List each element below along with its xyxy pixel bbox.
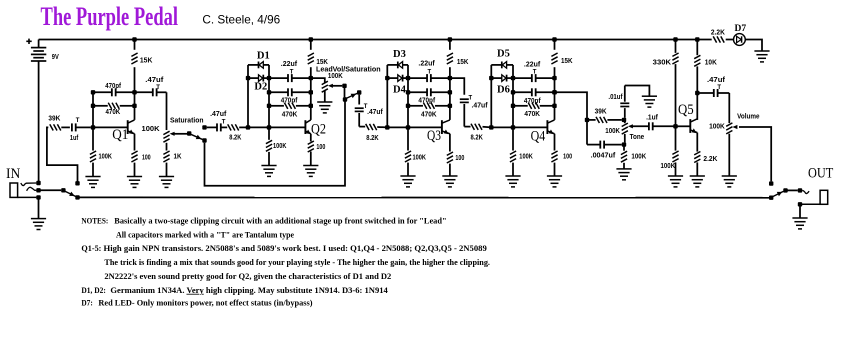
label T (to Q2) xyxy=(222,119,226,125)
wire: to Volume pot xyxy=(728,93,730,123)
wire: Q1 base node vertical xyxy=(92,92,94,150)
svg-text:.0047uf: .0047uf xyxy=(591,153,616,160)
wire: jack sleeve to ground xyxy=(38,197,40,218)
svg-text:T: T xyxy=(76,118,80,124)
resistor 2.2K (Q5 emitter) xyxy=(694,133,700,176)
junction Q5 base node xyxy=(673,124,677,128)
svg-text:2.2K: 2.2K xyxy=(711,29,725,36)
label 100K (Q4 bias) xyxy=(519,154,533,161)
junction on rail at Q4 15K xyxy=(552,37,556,41)
transistor Q5 xyxy=(690,119,697,133)
svg-text:470pf: 470pf xyxy=(281,98,298,105)
potentiometer Tone 100K xyxy=(622,120,628,142)
svg-text:1K: 1K xyxy=(174,153,182,160)
label .1uf xyxy=(646,114,658,121)
label D6 xyxy=(497,84,510,95)
resistor 8.2K (Q2 input) xyxy=(228,124,248,130)
svg-text:2N2222's even sound pretty goo: 2N2222's even sound pretty good for Q2, … xyxy=(104,272,391,281)
wire: D5 to node B xyxy=(507,64,513,66)
label 100K (Q5 bias) xyxy=(661,163,676,170)
switch SW1a (lead select) xyxy=(191,134,203,139)
wire: lead-switch rail xyxy=(205,97,346,186)
svg-text:100K: 100K xyxy=(273,143,286,150)
junction 470K row right xyxy=(448,104,452,108)
wire: feedback node vertical xyxy=(512,65,514,128)
junction tone node xyxy=(585,118,589,122)
label 470pf (Q3) xyxy=(418,98,435,105)
svg-text:8.2K: 8.2K xyxy=(471,134,483,141)
junction Q4 470pf row tap xyxy=(552,90,556,94)
resistor 15K (Q1 collector load) xyxy=(131,40,137,93)
svg-text:Saturation: Saturation xyxy=(170,118,204,125)
svg-text:Q1: Q1 xyxy=(112,127,128,143)
svg-text:.22uf: .22uf xyxy=(418,61,435,68)
capacitor 470pf xyxy=(408,88,450,96)
label 100 (Q1) xyxy=(142,154,151,161)
svg-text:470K: 470K xyxy=(282,111,298,118)
svg-text:T: T xyxy=(290,70,294,76)
wire: to Saturation pot xyxy=(166,92,168,130)
label Q3 xyxy=(427,128,441,144)
svg-text:D4: D4 xyxy=(393,85,407,96)
svg-text:D7: D7 xyxy=(735,24,747,34)
transistor Q3 xyxy=(442,120,450,134)
battery plus sign xyxy=(26,39,31,44)
svg-text:.47uf: .47uf xyxy=(145,77,164,84)
label T (to Q3) xyxy=(364,104,368,110)
svg-text:470pf: 470pf xyxy=(418,98,435,105)
svg-text:T: T xyxy=(533,70,537,76)
label D5 xyxy=(497,49,510,60)
label 330K xyxy=(653,59,671,66)
junction lead rail top / switch xyxy=(343,97,347,101)
potentiometer LeadVol/Saturation 100K xyxy=(322,81,328,102)
resistor 8.2K (Q3 input) xyxy=(366,124,388,130)
junction output switch pivot xyxy=(783,188,787,192)
svg-text:High gain NPN transistors. 2N: High gain NPN transistors. 2N5088's and … xyxy=(104,244,487,253)
label 8.2K (Q3 in) xyxy=(366,135,378,142)
svg-text:D5: D5 xyxy=(497,49,510,60)
svg-text:2.2K: 2.2K xyxy=(703,156,717,163)
svg-text:1uf: 1uf xyxy=(70,135,79,142)
junction LeadVol wiper xyxy=(342,84,346,88)
LED D7 xyxy=(734,34,746,46)
svg-text:100K: 100K xyxy=(142,126,160,133)
svg-text:15K: 15K xyxy=(457,59,469,66)
wire: Q4 collector node down xyxy=(554,78,556,120)
wire: top diode row xyxy=(491,64,502,66)
junction bypass switch pivot xyxy=(61,188,65,192)
junction Q3 base node xyxy=(385,125,389,129)
svg-text:100K: 100K xyxy=(99,153,113,160)
svg-text:The Purple Pedal: The Purple Pedal xyxy=(41,2,179,31)
label 100 (Q3) xyxy=(455,155,464,162)
subtitle: C. Steele, 4/96 xyxy=(202,13,280,27)
junction Q1 470K right xyxy=(132,104,136,108)
svg-text:.47uf: .47uf xyxy=(707,77,726,84)
wire: feedback node vertical xyxy=(268,65,270,128)
resistor 1K (below Saturation pot) xyxy=(163,151,169,177)
svg-text:.1uf: .1uf xyxy=(646,114,658,121)
capacitor 470pf (Q1 feedback) xyxy=(93,88,135,96)
junction Q4 bias node xyxy=(511,125,515,129)
label 100K (tone shunt) xyxy=(631,153,646,160)
label 2.2K xyxy=(711,29,725,36)
wire: bottom diode row xyxy=(248,77,259,79)
svg-text:.47uf: .47uf xyxy=(472,103,489,110)
ground (.01uf) xyxy=(642,96,657,107)
label OUT xyxy=(808,166,833,182)
label 15K (Q4) xyxy=(561,58,573,65)
ground (Q1 bias) xyxy=(85,177,100,188)
wire: .01uf to ground xyxy=(625,86,650,97)
resistor 100K (Q1 base bias) xyxy=(90,151,96,177)
note line 7 xyxy=(98,298,312,307)
junction Q2 collector/.22uf xyxy=(309,76,313,80)
wire: Q2 collector node down xyxy=(310,78,312,120)
wire: wiper down to switch xyxy=(344,86,346,98)
label .0047uf xyxy=(591,153,616,160)
resistor 470K xyxy=(269,103,311,109)
svg-text:NOTES:: NOTES: xyxy=(81,217,108,226)
junction Saturation wiper xyxy=(187,131,191,135)
note line 1 xyxy=(114,217,446,226)
label Q5 xyxy=(678,102,694,118)
wire: Q4 base row xyxy=(491,126,547,128)
label 470pf (Q2) xyxy=(281,98,298,105)
output jack J2 xyxy=(802,190,828,204)
label 8.2K (Q2 in) xyxy=(229,135,241,142)
resistor 100K (Q5 bias lower) xyxy=(672,126,678,176)
resistor 470K xyxy=(513,103,555,109)
svg-text:Q2: Q2 xyxy=(311,122,326,138)
junction Q3 collector/.22uf xyxy=(448,76,452,80)
wire: +9V power rail xyxy=(39,39,712,41)
label 100K (Q1 bias) xyxy=(99,153,113,160)
junction 470pf row right xyxy=(309,90,313,94)
label 100K (LeadVol) xyxy=(328,73,343,80)
svg-text:330K: 330K xyxy=(653,59,671,66)
wire: Q1 collector node down xyxy=(134,92,136,120)
diode D6 xyxy=(502,75,507,82)
junction 470K row right xyxy=(552,104,556,108)
resistor 470K xyxy=(408,103,450,109)
note line 1 label xyxy=(81,217,108,226)
label 470pf (Q1) xyxy=(105,83,121,90)
label 9V xyxy=(52,54,59,61)
wire: Q2 base row xyxy=(248,126,305,128)
ground (output jack) xyxy=(792,218,807,229)
wire: out jack sleeve to ground xyxy=(799,204,801,218)
svg-text:.22uf: .22uf xyxy=(524,62,541,69)
note line 3 xyxy=(104,244,487,253)
note line 4 xyxy=(104,258,490,267)
label 8.2K (Q4 in) xyxy=(471,134,483,141)
capacitor .22uf xyxy=(513,74,555,82)
contact bypass wire xyxy=(75,195,79,199)
wire: jack tip to switch pivot xyxy=(39,189,62,191)
junction 470pf row left xyxy=(267,90,271,94)
input jack J1 xyxy=(10,183,36,197)
resistor 470K (Q1 feedback) xyxy=(93,103,135,109)
wire: bottom diode row xyxy=(387,77,398,79)
junction jack sleeve xyxy=(36,195,40,199)
svg-text:D7:: D7: xyxy=(81,298,92,307)
svg-text:100K: 100K xyxy=(709,124,725,131)
battery B1 9V xyxy=(31,40,46,184)
label T (1uf) xyxy=(76,118,80,124)
Tone pot wiper xyxy=(628,124,649,128)
label 100K (Saturation) xyxy=(142,126,160,133)
svg-text:470K: 470K xyxy=(106,109,121,116)
label 100 (Q2) xyxy=(316,144,325,151)
junction Q1 470pf left xyxy=(91,90,95,94)
wire: Q3 base row xyxy=(387,126,442,128)
capacitor .47uf tantalum (Q1 out) xyxy=(135,88,167,96)
wire: Q2 collector to LeadVol pot xyxy=(311,78,325,83)
label .47uf (to Q2) xyxy=(210,111,227,118)
wire: Q3 collector to coupling cap xyxy=(450,78,464,95)
label T (.47uf Q1) xyxy=(156,85,160,91)
svg-text:.47uf: .47uf xyxy=(210,111,227,118)
svg-text:100K: 100K xyxy=(631,153,646,160)
wire: Q1 base xyxy=(93,126,128,128)
junction on rail at 330K xyxy=(673,37,677,41)
svg-text:IN: IN xyxy=(6,166,21,182)
svg-text:.47uf: .47uf xyxy=(367,109,383,116)
capacitor .01uf xyxy=(620,86,629,118)
svg-text:Q4: Q4 xyxy=(531,128,546,144)
svg-text:100K: 100K xyxy=(605,128,620,135)
svg-text:Q3: Q3 xyxy=(427,128,441,144)
transistor Q2 xyxy=(305,120,311,134)
resistor 100 (Q1 emitter) xyxy=(131,134,137,177)
junction node A bottom row xyxy=(385,76,389,80)
diode D1 xyxy=(259,62,264,69)
resistor 15K (Q3 collector load) xyxy=(447,40,453,79)
junction node B bottom row xyxy=(511,76,515,80)
junction Q2 base node xyxy=(246,125,250,129)
label D3 xyxy=(393,49,406,60)
junction tone pot bottom xyxy=(622,142,626,146)
resistor 100K (Q3 base bias) xyxy=(405,127,411,176)
svg-text:Germanium 1N34A. Very high cl: Germanium 1N34A. Very high clipping. May… xyxy=(110,286,387,295)
label 470K (Q3) xyxy=(421,112,437,119)
svg-text:Volume: Volume xyxy=(737,114,759,121)
label 15K (Q3) xyxy=(457,59,469,66)
wire: node ('D3', 'D4') vertical xyxy=(386,65,388,128)
wire: bottom diode row xyxy=(491,77,502,79)
ground (Q4 bias) xyxy=(505,176,520,187)
capacitor .47uf tantalum (output) xyxy=(697,89,729,97)
diode D3 xyxy=(398,62,403,69)
label IN xyxy=(6,166,21,182)
label D4 xyxy=(393,85,407,96)
svg-text:10K: 10K xyxy=(705,60,717,67)
ground (LeadVol pot) xyxy=(317,102,332,113)
label Q4 xyxy=(531,128,546,144)
wire: Q4 collector to tone xyxy=(555,92,588,120)
svg-text:100K: 100K xyxy=(519,154,533,161)
label Volume xyxy=(737,114,759,121)
ground (input jack) xyxy=(31,219,46,230)
ground (Saturation pot) xyxy=(159,177,174,188)
ground (Q3 bias) xyxy=(400,176,415,187)
label 100 (Q4) xyxy=(563,154,572,161)
wire: feedback node vertical xyxy=(407,65,409,128)
svg-text:100K: 100K xyxy=(413,155,427,162)
switch SW2b (bypass, output side) xyxy=(773,191,784,196)
diode D4 xyxy=(398,75,403,82)
ground (Q2 emitter) xyxy=(303,166,318,177)
contact effect input xyxy=(75,181,79,185)
title: The Purple Pedal xyxy=(41,2,179,31)
capacitor .22uf xyxy=(269,74,311,82)
label 470K (Q4) xyxy=(524,111,540,118)
svg-text:470K: 470K xyxy=(421,112,437,119)
capacitor .1uf xyxy=(649,122,653,130)
label 10K xyxy=(705,60,717,67)
label Tone xyxy=(630,134,645,141)
junction jack tip xyxy=(36,188,40,192)
diode D2 xyxy=(259,75,264,82)
resistor 330K (Q5 bias upper) xyxy=(672,40,678,127)
potentiometer Volume 100K xyxy=(726,123,732,176)
label .47uf (Q1 out) xyxy=(145,77,164,84)
transistor Q4 xyxy=(547,120,554,134)
junction 470K row left xyxy=(511,104,515,108)
label 15K (Q1) xyxy=(140,58,153,65)
svg-text:.22uf: .22uf xyxy=(281,61,298,68)
junction on rail at 10K xyxy=(695,37,699,41)
svg-text:15K: 15K xyxy=(316,59,328,66)
wire: top diode row xyxy=(248,64,259,66)
svg-text:Q1-5:: Q1-5: xyxy=(81,244,101,253)
svg-text:T: T xyxy=(156,85,160,91)
note line 6 xyxy=(110,286,387,295)
label D7 xyxy=(735,24,747,34)
resistor 100K (Q2 base bias) xyxy=(266,127,272,165)
wire: node ('D1', 'D2') vertical xyxy=(247,65,249,128)
junction 470pf row left xyxy=(511,90,515,94)
label T (to Q4) xyxy=(469,95,473,101)
resistor 10K (Q5 collector) xyxy=(694,40,700,120)
label 1K xyxy=(174,153,182,160)
svg-text:Basically a two-stage clipping: Basically a two-stage clipping circuit w… xyxy=(114,217,446,226)
label .47uf (output) xyxy=(707,77,726,84)
junction on rail at Q1 15K xyxy=(132,37,136,41)
junction node A bottom row xyxy=(246,76,250,80)
svg-text:8.2K: 8.2K xyxy=(229,135,241,142)
ground (Q1 emitter) xyxy=(127,177,142,188)
svg-text:39K: 39K xyxy=(595,109,607,116)
svg-text:15K: 15K xyxy=(561,58,573,65)
ground (tone shunt) xyxy=(616,169,631,180)
contact to Q3 input xyxy=(357,90,361,94)
note line 7 label xyxy=(81,298,92,307)
svg-text:9V: 9V xyxy=(52,54,59,61)
diode D5 xyxy=(502,62,507,69)
svg-text:All capacitors marked with a ": All capacitors marked with a "T" are Tan… xyxy=(116,230,294,239)
resistor 100K (Q4 base bias) xyxy=(510,127,516,176)
wire: bypass line xyxy=(78,196,772,198)
svg-text:T: T xyxy=(717,85,721,91)
wire: pivot to jack tip xyxy=(786,189,798,191)
svg-text:D3: D3 xyxy=(393,49,406,60)
label 15K (Q2) xyxy=(316,59,328,66)
svg-text:OUT: OUT xyxy=(808,166,833,182)
ground (D7) xyxy=(754,51,769,62)
svg-text:D1, D2:: D1, D2: xyxy=(81,286,106,295)
wire: .1uf to Q5 base node xyxy=(653,125,676,127)
resistor 100K (tone shunt) xyxy=(621,145,627,169)
label Saturation xyxy=(170,118,204,125)
svg-text:470pf: 470pf xyxy=(524,98,541,105)
svg-text:Red LED- Only monitors power,: Red LED- Only monitors power, not effect… xyxy=(98,298,312,307)
svg-text:Q5: Q5 xyxy=(678,102,694,118)
junction 470K row right xyxy=(309,104,313,108)
Saturation pot wiper xyxy=(170,132,187,136)
label T (.22uf Q4) xyxy=(533,70,537,76)
junction Q1 470K left xyxy=(91,104,95,108)
label 1uf xyxy=(70,135,79,142)
label D1 xyxy=(257,51,270,62)
junction jack sleeve node xyxy=(798,202,802,206)
label 39K xyxy=(48,116,60,123)
junction Q5 collector output tap xyxy=(695,91,699,95)
ground (Q5 bias) xyxy=(668,176,683,187)
junction 470pf row left xyxy=(406,90,410,94)
label 2.2K (Q5) xyxy=(703,156,717,163)
svg-text:470pf: 470pf xyxy=(105,83,121,90)
svg-text:T: T xyxy=(469,95,473,101)
svg-text:D6: D6 xyxy=(497,84,510,95)
label .01uf xyxy=(608,94,623,101)
svg-text:The trick is finding a mix tha: The trick is finding a mix that sounds g… xyxy=(104,258,490,267)
wire: Q3 collector node down xyxy=(449,78,451,120)
junction 470K row left xyxy=(267,104,271,108)
label 100K (Q3 bias) xyxy=(413,155,427,162)
capacitor 470pf xyxy=(513,88,555,96)
junction 470pf row right xyxy=(448,90,452,94)
resistor 39K (input) xyxy=(50,124,70,130)
label 100K (Q2 bias) xyxy=(273,143,286,150)
wire: top diode row xyxy=(387,64,398,66)
potentiometer Saturation 100K xyxy=(163,131,169,150)
junction Q2 bias node xyxy=(267,125,271,129)
junction node B bottom row xyxy=(267,76,271,80)
label D2 xyxy=(254,82,267,93)
svg-text:Tone: Tone xyxy=(630,134,645,141)
label Q2 xyxy=(311,122,326,138)
svg-text:100K: 100K xyxy=(328,73,343,80)
LeadVol pot wiper xyxy=(328,84,342,88)
svg-text:100: 100 xyxy=(142,154,151,161)
label 39K (tone) xyxy=(595,109,607,116)
label T (.22uf Q2) xyxy=(290,70,294,76)
wire: D6 to node B xyxy=(507,77,513,79)
Volume pot wiper xyxy=(732,125,737,129)
junction bypass end contact xyxy=(769,196,773,200)
junction Q1 base node xyxy=(91,125,95,129)
junction jack ring (battery return) xyxy=(36,181,40,185)
svg-text:D1: D1 xyxy=(257,51,270,62)
capacitor .47uf tantalum (to Q4) xyxy=(460,99,471,126)
capacitor 470pf xyxy=(269,88,311,96)
junction on rail at Q3 15K xyxy=(448,37,452,41)
wire: node ('D5', 'D6') vertical xyxy=(490,65,492,128)
label .47uf (to Q4) xyxy=(472,103,489,110)
